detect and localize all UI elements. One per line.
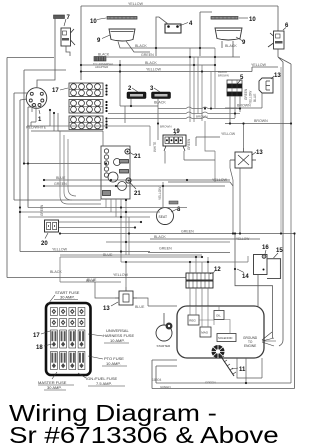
svg-text:7: 7 <box>67 15 71 21</box>
svg-text:BROWN: BROWN <box>196 115 208 119</box>
wires near decals <box>120 60 158 140</box>
svg-text:20: 20 <box>41 241 48 247</box>
wire from switch 7 bottom <box>66 46 70 56</box>
svg-text:21: 21 <box>134 154 141 160</box>
svg-text:YELLOW: YELLOW <box>212 178 228 182</box>
wire verticals mid cluster <box>190 48 215 182</box>
svg-text:30 AMP.: 30 AMP. <box>47 385 62 390</box>
svg-text:YELLOW: YELLOW <box>146 68 162 72</box>
switch block 21 <box>101 146 130 199</box>
svg-text:BLACK: BLACK <box>145 61 157 65</box>
wire: left drop from top run <box>80 6 82 80</box>
hour meter bracket 10 (right) <box>211 17 238 20</box>
svg-text:YELLOW: YELLOW <box>158 187 162 200</box>
MAG box <box>200 327 211 337</box>
svg-text:10: 10 <box>90 19 97 25</box>
svg-text:GREEN: GREEN <box>244 88 248 100</box>
fuse panel <box>46 303 91 375</box>
wires above connector 12 <box>190 257 208 273</box>
key switch 1 <box>26 88 47 109</box>
svg-text:8: 8 <box>177 207 181 213</box>
connector above switch 7 (hatched) <box>54 15 65 19</box>
wire bus y113 (wavy) <box>108 112 240 114</box>
wires inside module <box>190 306 230 334</box>
svg-text:2: 2 <box>128 86 132 92</box>
wire GREEN y233 (long) <box>60 234 295 389</box>
svg-text:10: 10 <box>249 17 256 23</box>
PTO switch 6 <box>268 31 284 49</box>
svg-text:BLACK: BLACK <box>225 44 237 48</box>
wire bus BLACK y65 <box>81 64 215 66</box>
wire near module 4 right <box>200 12 212 56</box>
wire from connector 7 down to key switch <box>37 19 55 88</box>
svg-text:17: 17 <box>33 333 40 339</box>
svg-text:YELLOW: YELLOW <box>249 91 253 104</box>
svg-text:7.5 AMP.: 7.5 AMP. <box>96 381 112 386</box>
engine module outline <box>177 306 264 358</box>
verticals from block 21 down <box>106 199 129 262</box>
module connector 12 <box>186 273 213 288</box>
wire BLUE y180 <box>44 179 230 181</box>
hour meter 9 (right) <box>215 28 242 40</box>
svg-text:GREEN: GREEN <box>181 230 194 234</box>
svg-text:18504: 18504 <box>152 378 162 382</box>
svg-text:BLACK: BLACK <box>135 44 147 48</box>
wire bus y207-228 (center) <box>20 208 187 228</box>
svg-text:YELLOW: YELLOW <box>251 63 267 67</box>
svg-text:BLACK: BLACK <box>50 270 62 274</box>
svg-text:GREEN: GREEN <box>160 385 171 389</box>
wires from connector 5 down <box>230 96 240 123</box>
wire y255 bus <box>60 242 230 255</box>
svg-text:1: 1 <box>38 117 42 123</box>
svg-text:10 AMP.: 10 AMP. <box>106 361 121 366</box>
diode module 4 <box>165 24 181 33</box>
svg-text:BLUE: BLUE <box>253 94 257 102</box>
svg-text:BLUE: BLUE <box>135 305 145 309</box>
tiny labels near x218 y70 <box>218 70 229 78</box>
svg-text:17: 17 <box>52 88 59 94</box>
svg-text:GREEN: GREEN <box>40 204 44 216</box>
svg-text:14: 14 <box>242 274 249 280</box>
relay 13 (mid right) <box>230 148 256 168</box>
decal 3 <box>152 92 171 99</box>
svg-text:3: 3 <box>150 86 154 92</box>
wire GREEN y186 <box>44 185 225 187</box>
svg-text:MAG: MAG <box>201 331 209 335</box>
seat switch 8 <box>157 208 174 225</box>
wire y163 <box>24 163 101 165</box>
svg-text:YELLOW: YELLOW <box>236 237 249 241</box>
svg-text:BLUE: BLUE <box>86 279 96 283</box>
svg-text:OIL: OIL <box>216 314 221 318</box>
vertical labels near 19 <box>153 138 191 152</box>
svg-text:15: 15 <box>276 248 283 254</box>
wires from meter 9 left down to bus <box>118 42 215 49</box>
svg-text:10 AMP.: 10 AMP. <box>110 338 125 343</box>
wires from relay 13 mid <box>230 123 244 233</box>
relay 13 (upper) <box>259 78 273 93</box>
svg-text:ENGINE: ENGINE <box>244 344 256 348</box>
svg-text:BROWN: BROWN <box>254 119 268 123</box>
svg-text:BLACK: BLACK <box>154 101 166 105</box>
svg-text:GREEN: GREEN <box>159 247 172 251</box>
svg-text:18: 18 <box>36 345 43 351</box>
wire module bottom drops <box>237 358 262 383</box>
battery 16 <box>254 255 268 275</box>
svg-text:REG: REG <box>189 319 196 323</box>
wire bus y126 mesh <box>50 126 150 146</box>
svg-text:YELLOW: YELLOW <box>221 132 236 136</box>
wire bundle sweep (left-mid) <box>60 131 101 204</box>
REG box <box>188 315 199 325</box>
svg-text:12: 12 <box>214 267 221 273</box>
connector 17 band C <box>69 116 108 130</box>
wires from meter 9 right <box>221 41 223 48</box>
svg-text:SEAT: SEAT <box>159 215 168 219</box>
ground arrows <box>262 332 276 346</box>
svg-text:GREEN: GREEN <box>205 381 216 385</box>
connector above seat (hatched) <box>169 201 178 204</box>
connector 20 <box>45 220 59 232</box>
svg-text:GREEN: GREEN <box>187 138 191 150</box>
wire: right drop into switch 6 <box>277 6 279 31</box>
svg-text:9: 9 <box>242 40 246 46</box>
svg-text:BROWN: BROWN <box>237 104 251 108</box>
svg-text:21: 21 <box>134 191 141 197</box>
vertical wire color labels (right mid) <box>244 88 257 104</box>
wire: top yellow run <box>81 5 278 7</box>
wire bottom y384 <box>156 366 291 383</box>
wire: right edge verticals <box>279 62 291 346</box>
wire y200 <box>14 199 101 201</box>
connector 5 <box>227 80 242 96</box>
svg-text:WHITE: WHITE <box>153 142 157 152</box>
svg-text:YELLOW: YELLOW <box>52 248 68 252</box>
hour meter bracket 10 (left) <box>107 17 137 20</box>
wire from module 4 left terminal <box>156 17 168 56</box>
svg-text:4: 4 <box>189 21 193 27</box>
wire GREEN y252 <box>148 252 230 254</box>
svg-text:BLUE: BLUE <box>56 176 66 180</box>
svg-text:BLACK: BLACK <box>154 235 166 239</box>
wire from seat up <box>162 182 164 208</box>
wire bus GREEN y57 <box>106 56 240 58</box>
svg-text:STARTER: STARTER <box>157 344 172 348</box>
svg-text:30 AMP.: 30 AMP. <box>60 295 75 300</box>
adapter connector (to universal harness) <box>94 57 106 62</box>
terminal 21 (lower) <box>126 178 131 183</box>
svg-text:19: 19 <box>173 129 180 135</box>
svg-text:11: 11 <box>239 367 246 373</box>
wire BLACK y239 <box>150 238 260 240</box>
svg-text:GREEN: GREEN <box>54 182 67 186</box>
svg-text:BLACK: BLACK <box>98 53 110 57</box>
svg-text:BROWN: BROWN <box>218 74 229 78</box>
wire y262 bus <box>121 256 248 262</box>
relay 13 (above fuse panel) <box>115 287 137 305</box>
svg-text:9: 9 <box>97 38 101 44</box>
starter <box>156 313 172 348</box>
connector 17 band A <box>69 83 108 97</box>
hour meter 9 (left) <box>109 29 135 41</box>
svg-text:13: 13 <box>274 73 281 79</box>
svg-text:BROWN: BROWN <box>160 125 172 129</box>
OIL box <box>214 311 224 320</box>
wire bottom y389 <box>152 360 295 389</box>
wire into 19 <box>165 137 220 164</box>
SOLENOID box <box>217 334 236 342</box>
wire BLACK y277 <box>7 274 186 278</box>
connector 19 <box>163 135 186 151</box>
terminal 21 (upper) <box>125 149 130 154</box>
wire YELLOW y251 <box>20 251 150 253</box>
wire YELLOW y182 right <box>168 182 233 186</box>
decal 2 <box>127 92 146 99</box>
wires relay 13 lower <box>95 262 177 306</box>
wire below switch 6 forking right <box>278 49 291 64</box>
wire bus y118 (wavy) <box>108 117 235 119</box>
svg-text:SOLENOID: SOLENOID <box>218 336 232 340</box>
svg-text:13: 13 <box>103 306 110 312</box>
svg-text:GREEN: GREEN <box>141 53 154 57</box>
svg-text:YELLOW: YELLOW <box>128 2 144 6</box>
wire: far-left verticals <box>7 58 28 278</box>
wire bus y108 (wavy) <box>158 107 240 109</box>
wires from bands down-left <box>27 110 103 146</box>
svg-text:13: 13 <box>256 150 263 156</box>
battery wires <box>235 234 273 339</box>
PTO clutch <box>212 345 225 358</box>
ground strap 11 <box>220 355 234 376</box>
connector 17 band B <box>69 100 108 114</box>
wire bus YELLOW y71 <box>81 67 278 72</box>
wires from connector 12 into module <box>190 288 208 306</box>
battery cable 15 <box>267 259 281 279</box>
light switch 7 <box>61 28 75 46</box>
